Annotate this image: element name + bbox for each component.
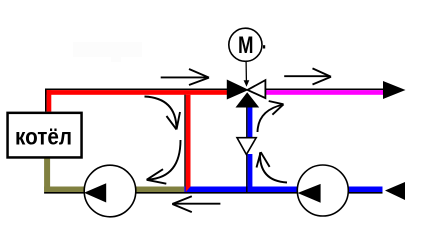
flow arrow 1 (top, rightward) xyxy=(161,69,209,85)
wire: supply red horizontal pipe xyxy=(47,90,228,95)
wire: mid red vertical black left edge xyxy=(184,95,186,192)
wire: boiler riser red vertical pipe xyxy=(47,90,52,112)
wire: magenta supply-out pipe xyxy=(265,90,383,95)
curved flow arrow B (red vertical into return) xyxy=(147,140,181,184)
valve: 3-way mixing valve bottom seat xyxy=(236,92,260,107)
wire: olive boiler return vertical pipe xyxy=(44,159,50,193)
valve: 3-way mixing valve left seat xyxy=(227,80,247,98)
wire: boiler riser black left edge xyxy=(45,89,47,112)
valve: 3-way mixing valve right seat xyxy=(248,80,266,98)
boiler box xyxy=(8,113,82,158)
wire: magenta supply-out black top edge xyxy=(265,89,383,91)
check valve on blue leg xyxy=(237,138,256,155)
curved flow arrow C (blue leg into supply-out) xyxy=(258,101,284,132)
actuator M circle xyxy=(229,28,262,61)
faint watermark remnant xyxy=(73,42,142,62)
flow arrow 3 (bottom, leftward) xyxy=(172,196,220,212)
pump P1 circle xyxy=(84,165,136,217)
actuator stem line xyxy=(245,62,247,81)
wire: blue valve-leg vertical pipe lower xyxy=(248,154,253,192)
node: red/blue junction bevel xyxy=(186,187,191,193)
wire: olive boiler return horizontal pipe xyxy=(44,187,184,193)
wire: return pipe black bottom edge xyxy=(44,192,382,194)
wire: blue valve-leg vertical pipe upper xyxy=(248,108,253,138)
svg-text:котёл: котёл xyxy=(15,123,72,149)
pump P2 circle xyxy=(297,165,348,216)
pump P2 impeller triangle xyxy=(298,184,321,203)
actuator stem arrowhead xyxy=(244,80,250,87)
wire: blue valve-leg black left edge lower xyxy=(246,154,248,192)
wire: mid red vertical pipe xyxy=(186,95,191,187)
pump P1 impeller triangle xyxy=(84,183,106,202)
wire: blue return horizontal pipe xyxy=(184,187,382,193)
flow arrow 2 (above magenta, rightward) xyxy=(284,68,331,84)
wire: blue valve-leg black left edge upper xyxy=(246,108,248,138)
curved flow arrow A (into mid red vertical) xyxy=(145,97,181,130)
actuator tick mark right of circle xyxy=(263,45,265,48)
wire: supply pipe black top edge xyxy=(45,89,227,91)
arrowhead: supply outlet xyxy=(383,81,406,99)
svg-text:M: M xyxy=(238,32,254,59)
arrowhead: return inlet xyxy=(385,182,405,200)
curved flow arrow D (return up through check valve) xyxy=(257,152,288,182)
